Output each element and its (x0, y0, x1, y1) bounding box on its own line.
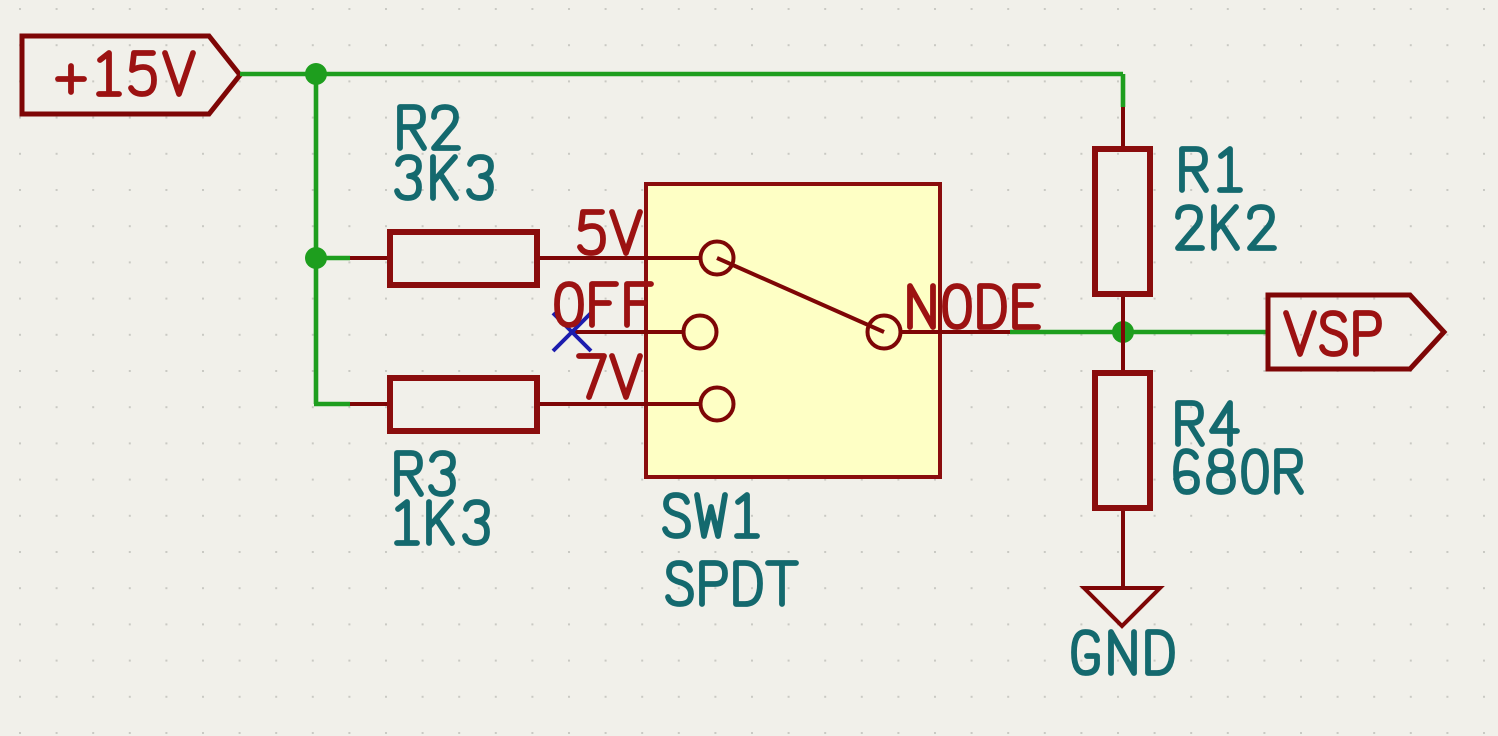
wire +15V top horizontal (240, 72, 1123, 77)
SW1 pin circle 5V (701, 242, 734, 275)
junction at R2 (305, 247, 327, 269)
wire to R2 (316, 256, 350, 261)
output flag VSP (1268, 295, 1444, 369)
SW1 OFF pin line (572, 330, 683, 334)
SW1 value label SPDT (668, 563, 796, 604)
SW1 common pin circle (868, 316, 901, 349)
wire left bus vertical (314, 74, 319, 404)
resistor R2 (350, 107, 646, 285)
power flag +15V (22, 36, 240, 114)
junction at +15V (305, 63, 327, 85)
net label 7V (579, 356, 640, 397)
resistor R1 (1095, 107, 1274, 332)
wire to R3 (314, 402, 350, 407)
SW1 lever (717, 258, 884, 332)
SW1 pin circle OFF (684, 316, 717, 349)
resistor R3 (350, 378, 646, 543)
junction at VSP node (1112, 321, 1134, 343)
no-connect X (553, 313, 591, 351)
net label OFF (557, 284, 651, 325)
net label NODE (910, 286, 1038, 327)
SW1 reference label (665, 495, 757, 536)
wire NODE to VSP (1010, 330, 1268, 335)
ground (1074, 588, 1172, 673)
SW1 common pin (901, 330, 1010, 334)
SW1 pin line 7V (644, 402, 700, 406)
wire R1 top vertical (1121, 74, 1126, 107)
SW1 pin circle 7V (701, 388, 734, 421)
SW1 pin line 5V (644, 256, 700, 260)
resistor R4 (1095, 332, 1301, 588)
net label 5V (580, 212, 640, 253)
switch SW1 body (646, 184, 940, 477)
